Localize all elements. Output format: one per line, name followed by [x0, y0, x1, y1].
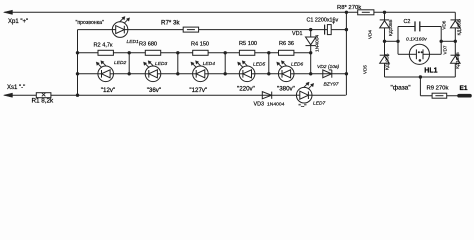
wire C2 leads	[398, 26, 441, 28]
wire ladder vertical 2	[128, 53, 130, 74]
svg-text:LED5: LED5	[253, 62, 266, 68]
wire lamp-C2 right vertical	[440, 27, 442, 55]
junction R2-R3	[128, 51, 131, 54]
label LED5	[253, 62, 266, 68]
svg-text:VD2 (10в): VD2 (10в)	[317, 64, 339, 70]
resistor R6	[279, 50, 294, 55]
svg-text:"36v": "36v"	[147, 87, 161, 94]
LED LED2	[96, 61, 113, 82]
label R1 8,2k	[32, 98, 55, 105]
junction LED5-LED6	[267, 72, 270, 75]
svg-text:R9 270k: R9 270k	[427, 86, 449, 92]
svg-text:VD4: VD4	[368, 30, 373, 39]
label R9 270k	[427, 86, 449, 92]
svg-text:VD1: VD1	[292, 31, 302, 37]
label tilde	[299, 104, 307, 111]
label LED4	[203, 61, 216, 67]
wire ladder vertical 4	[224, 53, 226, 74]
resistor R5	[239, 50, 254, 55]
wire bridge right rung	[441, 40, 455, 42]
label Xp1 plus	[8, 19, 28, 25]
label Xs1 minus	[7, 85, 25, 91]
label 1N4004 (VD3)	[267, 102, 285, 108]
svg-text:R1 8,2k: R1 8,2k	[32, 98, 55, 105]
wire VD1 vertical	[310, 30, 312, 74]
resistor R7	[183, 27, 198, 32]
svg-text:R8* 270k: R8* 270k	[337, 5, 361, 11]
junction LED4-LED5	[224, 72, 227, 75]
svg-text:R5 100: R5 100	[239, 41, 257, 47]
svg-text:1N4004: 1N4004	[315, 35, 321, 52]
junction R5-R6	[267, 51, 270, 54]
label 220v	[237, 86, 255, 93]
svg-text:"фаза": "фаза"	[391, 85, 412, 92]
label R6 36	[279, 41, 294, 47]
wire ladder vertical 5	[268, 53, 270, 74]
svg-text:"380v": "380v"	[277, 86, 295, 93]
LED LED5	[238, 61, 255, 82]
junction R6 end / VD1 column	[309, 51, 312, 54]
svg-text:VD3: VD3	[254, 102, 264, 108]
label прозвонка	[76, 20, 104, 26]
junction ladder left / R-chain	[76, 51, 79, 54]
label LED2	[114, 60, 127, 66]
junction bridge left rung	[383, 40, 386, 43]
svg-text:"220v": "220v"	[237, 86, 255, 93]
junction LED3-LED4	[176, 72, 179, 75]
wire bottom rail from Xs1 to corner at C1 column	[5, 94, 346, 96]
probe Xp1 arrowhead	[4, 10, 13, 14]
junction LED row / VD1 column	[309, 72, 312, 75]
svg-text:VD7: VD7	[442, 45, 447, 54]
junction bottom rail / ladder left	[76, 94, 79, 97]
label LED7	[313, 101, 326, 107]
wire E1 lead	[471, 95, 472, 97]
svg-text:BZY97: BZY97	[324, 81, 339, 87]
wire left ladder vertical	[77, 30, 79, 96]
label VD7	[442, 45, 447, 54]
label R7* 3k	[161, 20, 180, 27]
label R8* 270k	[337, 5, 361, 11]
label 12v	[101, 87, 115, 94]
svg-text:R2 4,7к: R2 4,7к	[94, 43, 113, 49]
svg-text:R3 680: R3 680	[139, 42, 157, 48]
svg-text:0.1Х160v: 0.1Х160v	[406, 37, 427, 43]
wire lamp leads	[398, 53, 441, 55]
svg-text:Xp1 "+": Xp1 "+"	[8, 19, 28, 25]
svg-text:C1 2200х16v: C1 2200х16v	[307, 18, 339, 24]
label 1N4004 (VD1)	[315, 35, 321, 52]
wire lamp-C2 left vertical	[397, 27, 399, 55]
svg-text:КД105Б: КД105Б	[457, 19, 462, 35]
diode VD4	[380, 20, 390, 28]
svg-text:LED4: LED4	[203, 61, 216, 67]
label КД105Б (VD5)	[385, 54, 390, 70]
svg-text:LED3: LED3	[155, 61, 168, 67]
resistor R9	[432, 93, 447, 98]
junction inner-left rung	[396, 40, 399, 43]
label фаза	[391, 85, 412, 92]
resistor R3	[145, 50, 160, 55]
svg-text:LED1: LED1	[127, 39, 140, 45]
capacitor C1 left plate	[324, 25, 326, 35]
svg-text:"127v": "127v"	[189, 87, 207, 94]
label VD2 (10в)	[317, 64, 339, 70]
wire bridge left rung	[385, 40, 399, 42]
label E1	[460, 85, 468, 92]
svg-text:Xs1 "-": Xs1 "-"	[7, 85, 25, 91]
label BZY97	[324, 81, 339, 87]
resistor R2	[98, 50, 113, 55]
label LED1	[127, 39, 140, 45]
label 0.1X160v	[406, 37, 427, 43]
neon lamp HL1	[409, 44, 429, 64]
junction R4-R5	[224, 51, 227, 54]
label VD5	[363, 65, 368, 74]
LED LED3	[143, 61, 160, 82]
label plus (C1)	[332, 21, 335, 27]
junction ladder left / LED row	[76, 72, 79, 75]
svg-text:LED2: LED2	[114, 60, 127, 66]
resistor R1 with X power mark	[36, 93, 51, 98]
svg-text:"~": "~"	[299, 104, 307, 111]
label VD6	[441, 20, 446, 29]
label VD4	[368, 30, 373, 39]
label R2 4,7к	[94, 43, 113, 49]
wire ladder vertical 3	[177, 53, 179, 74]
junction second rail / VD1 column	[309, 28, 312, 31]
label C1 2200x16v	[307, 18, 339, 24]
diode VD7	[451, 55, 461, 63]
svg-text:КД105Б: КД105Б	[455, 52, 460, 68]
label C2	[404, 19, 411, 25]
junction top rail / C1 column	[345, 11, 348, 14]
label R4 150	[191, 42, 209, 48]
wire фаза drop from bridge to R9 line	[420, 77, 457, 96]
zener diode VD2	[323, 70, 332, 78]
svg-text:R6 36: R6 36	[279, 41, 294, 47]
capacitor C2 plates	[415, 21, 420, 31]
wire top rail from Xp1 to bridge top-right corner	[5, 11, 456, 13]
svg-text:VD6: VD6	[441, 20, 446, 29]
svg-text:"12v": "12v"	[101, 87, 115, 94]
label КД105Б (VD6)	[457, 19, 462, 35]
label 127v	[189, 87, 207, 94]
label LED3	[155, 61, 168, 67]
junction bridge bottom / фаза drop	[419, 75, 422, 78]
svg-text:E1: E1	[460, 85, 468, 92]
junction VD2 / C1 column	[345, 72, 348, 75]
svg-text:R4 150: R4 150	[191, 42, 209, 48]
diode VD3	[262, 92, 271, 99]
svg-text:R7* 3k: R7* 3k	[161, 20, 180, 27]
label 36v	[147, 87, 161, 94]
junction R3-R4	[176, 51, 179, 54]
label КД105Б (VD7)	[455, 52, 460, 68]
junction bridge right rung	[454, 40, 457, 43]
junction LED2-LED3	[128, 72, 131, 75]
diode VD6	[451, 20, 461, 28]
capacitor C1 right plate (hollow)	[327, 25, 331, 35]
svg-text:"прозвонка": "прозвонка"	[76, 20, 104, 26]
svg-text:VD5: VD5	[363, 65, 368, 74]
label R5 100	[239, 41, 257, 47]
resistor R8	[358, 10, 374, 15]
label LED6	[291, 62, 304, 68]
svg-text:HL1: HL1	[424, 68, 437, 75]
junction inner-right rung	[440, 40, 443, 43]
LED LED1	[112, 16, 129, 37]
svg-text:LED7: LED7	[313, 101, 326, 107]
LED LED7	[296, 82, 313, 103]
svg-text:C2: C2	[404, 19, 411, 25]
diode VD1	[306, 37, 316, 46]
probe Xs1 arrowhead	[4, 93, 13, 97]
wire second rail (прозвонка branch)	[78, 29, 347, 31]
label КД105Б (VD4)	[388, 20, 393, 36]
label R3 680	[139, 42, 157, 48]
wire C1-right vertical (top rail to bottom rail)	[345, 12, 347, 95]
wire bridge left vertical	[384, 12, 386, 77]
LED LED4	[191, 61, 208, 82]
svg-text:1N4004: 1N4004	[267, 102, 285, 108]
label VD3	[254, 102, 264, 108]
svg-text:КД105Б: КД105Б	[385, 54, 390, 70]
junction second rail / C1 right	[345, 28, 348, 31]
wire bridge bottom rail	[385, 76, 456, 78]
LED LED6	[277, 61, 294, 82]
svg-text:LED6: LED6	[291, 62, 304, 68]
label 380v	[277, 86, 295, 93]
wire LED row rail	[78, 73, 347, 75]
diode VD5	[380, 55, 390, 63]
svg-text:КД105Б: КД105Б	[388, 20, 393, 36]
label VD1	[292, 31, 302, 37]
label HL1	[424, 68, 437, 75]
terminal E1 contact bar	[459, 94, 470, 98]
resistor R4	[193, 50, 208, 55]
junction top rail / bridge left	[383, 11, 386, 14]
wire resistor-chain rail	[78, 52, 311, 54]
wire bridge right vertical	[454, 12, 456, 77]
